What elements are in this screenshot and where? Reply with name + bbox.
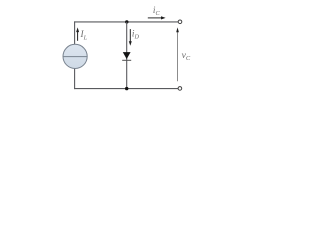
current source I_L (circle with horizontal bar) [63, 44, 87, 68]
current arrow I_L [76, 27, 79, 40]
svg-text:IL: IL [80, 29, 88, 42]
svg-text:iD: iD [132, 29, 140, 41]
terminal bottom (open circle) [178, 87, 182, 91]
svg-text:vC: vC [182, 50, 191, 62]
wire top (source to top terminal) [74, 21, 178, 23]
wire left branch upper [74, 21, 76, 44]
current arrow i_C [148, 16, 166, 19]
voltage arrow v_C (plus at top) [176, 27, 179, 81]
current arrow i_D [129, 29, 132, 46]
wire left branch lower [74, 68, 76, 89]
wire middle branch [126, 22, 128, 89]
svg-text:iC: iC [153, 5, 161, 17]
node dot top (junction) [125, 20, 128, 23]
terminal top (open circle) [178, 20, 182, 24]
diode D (anode top, cathode bottom) [122, 52, 131, 60]
wire bottom (source to bottom terminal) [74, 88, 178, 90]
node dot bottom (junction) [125, 87, 128, 90]
